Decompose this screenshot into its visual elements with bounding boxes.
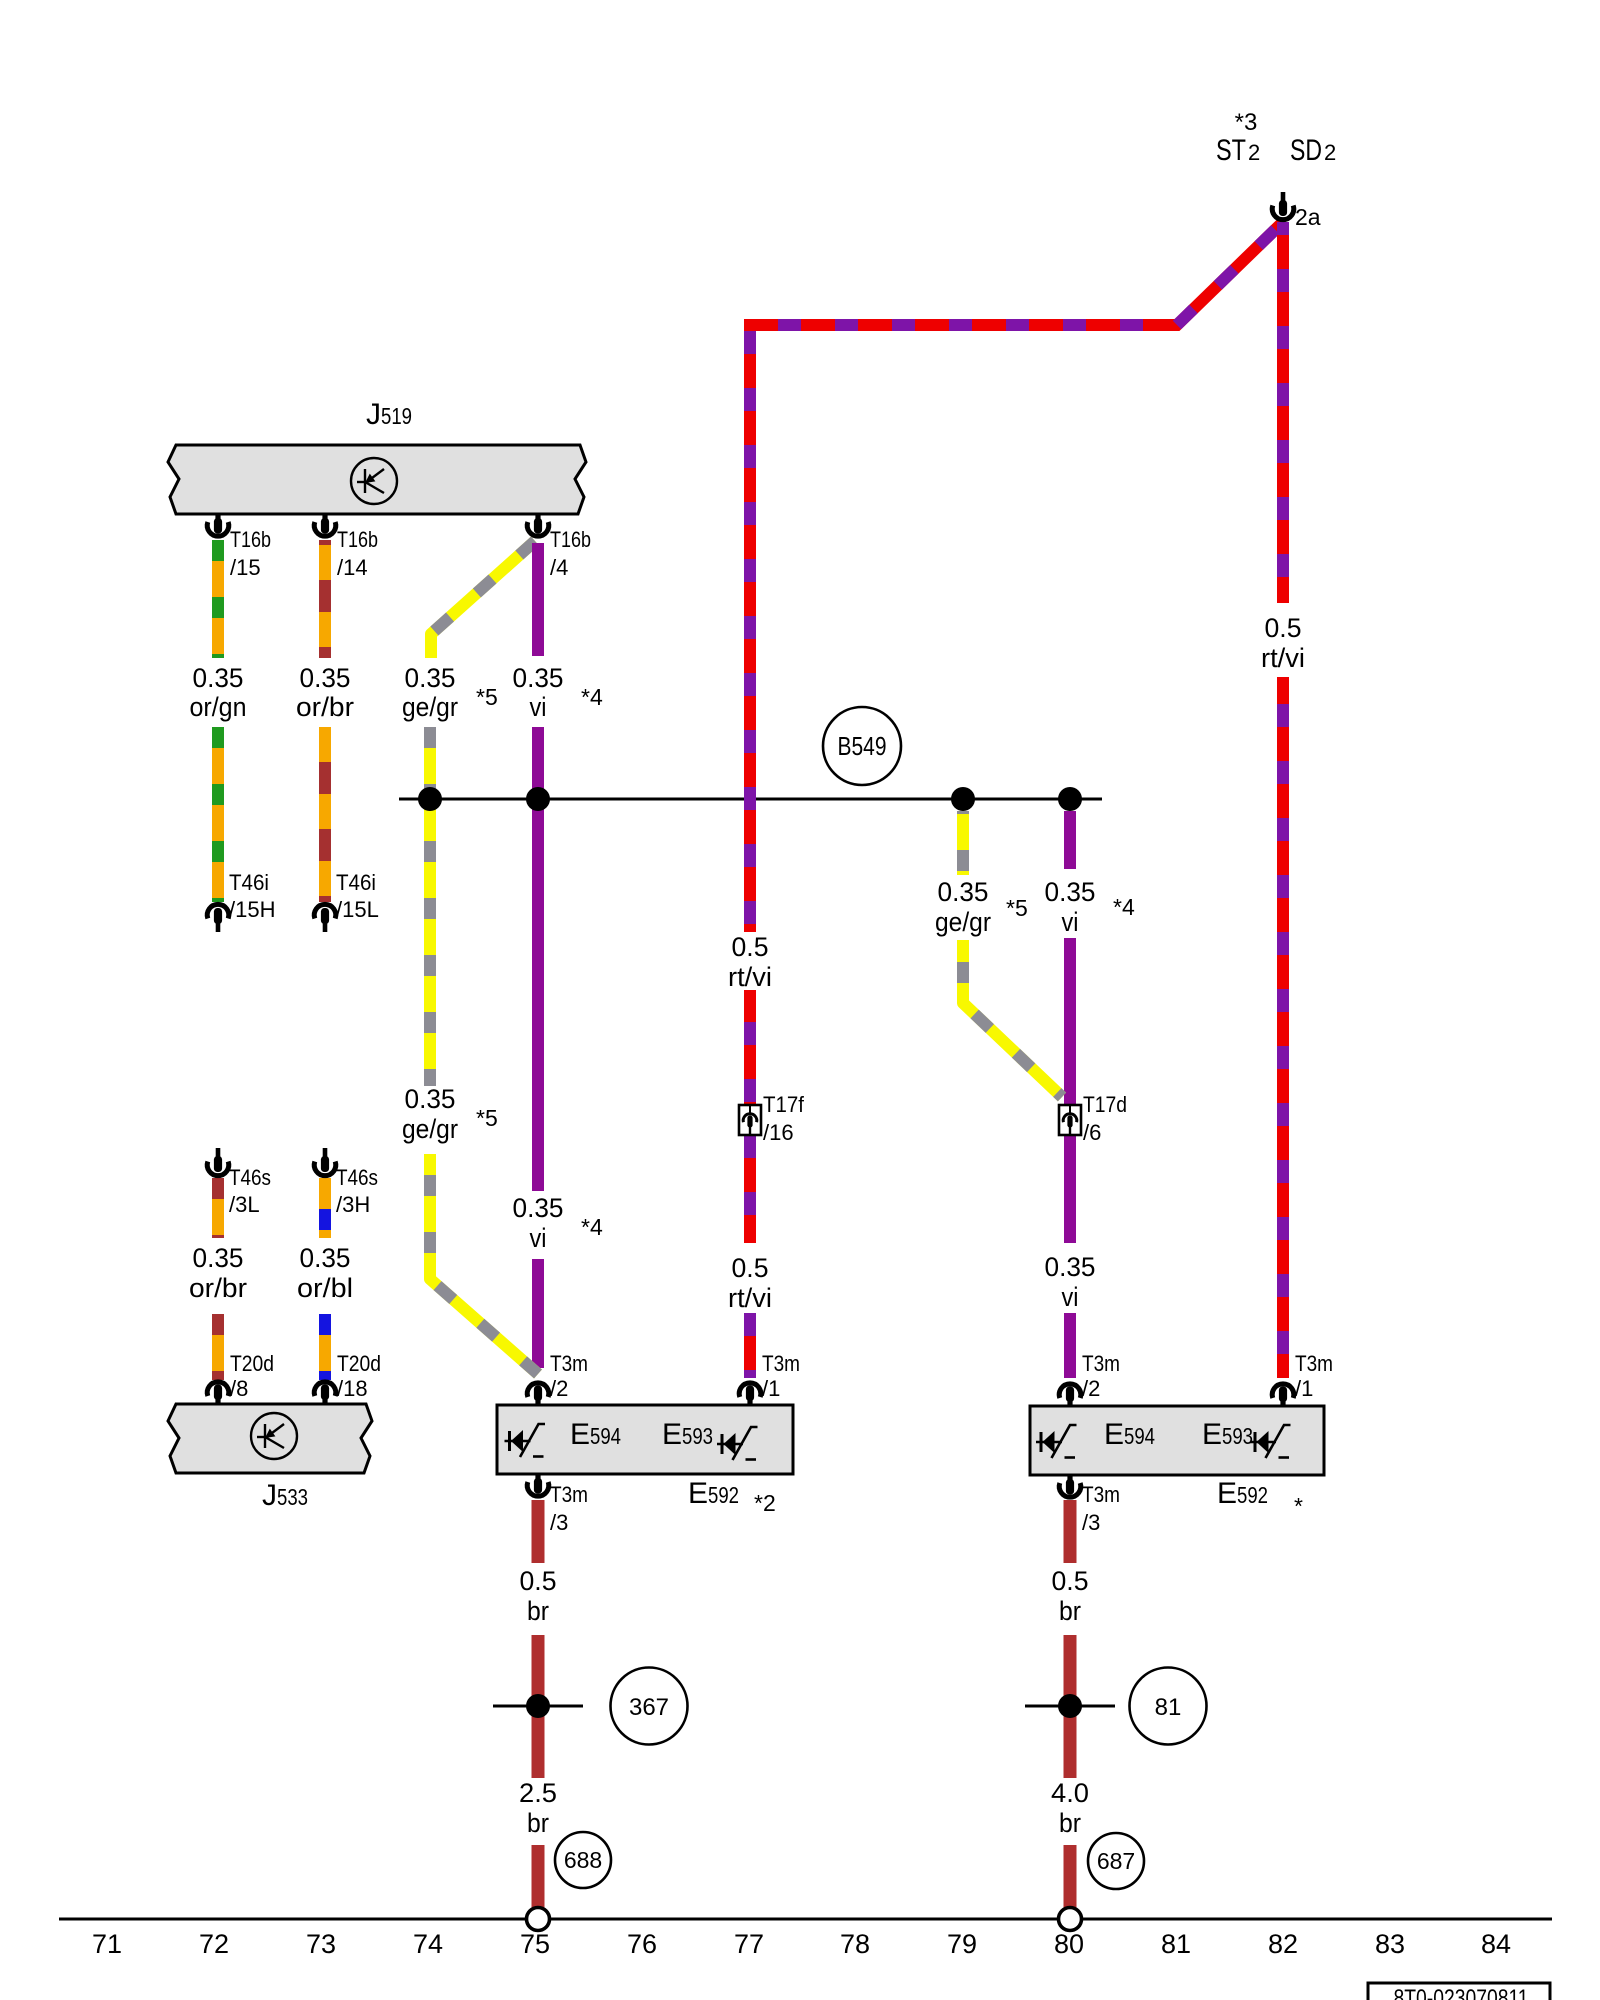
svg-text:T17d: T17d: [1083, 1092, 1127, 1117]
svg-text:/15: /15: [230, 555, 261, 580]
svg-text:ge/gr: ge/gr: [402, 692, 458, 722]
svg-text:vi: vi: [530, 692, 547, 722]
svg-text:/8: /8: [230, 1376, 248, 1401]
svg-text:E593: E593: [1202, 1418, 1253, 1451]
svg-text:*4: *4: [581, 684, 603, 710]
svg-text:T3m: T3m: [1082, 1482, 1120, 1507]
svg-text:*5: *5: [476, 1105, 498, 1131]
svg-text:T46i: T46i: [336, 870, 376, 895]
svg-text:/3H: /3H: [336, 1192, 370, 1217]
svg-text:0.5: 0.5: [520, 1566, 557, 1596]
svg-text:78: 78: [840, 1929, 870, 1959]
svg-text:79: 79: [947, 1929, 977, 1959]
svg-text:74: 74: [413, 1929, 443, 1959]
svg-text:/14: /14: [337, 555, 368, 580]
svg-text:/3: /3: [1082, 1510, 1100, 1535]
svg-text:/1: /1: [1295, 1376, 1313, 1401]
svg-text:br: br: [527, 1596, 549, 1626]
svg-text:0.35: 0.35: [513, 663, 564, 693]
svg-text:*4: *4: [581, 1214, 603, 1240]
svg-text:or/br: or/br: [296, 692, 354, 722]
svg-text:ge/gr: ge/gr: [935, 907, 991, 937]
svg-text:0.35: 0.35: [193, 1243, 244, 1273]
svg-text:T16b: T16b: [550, 527, 591, 552]
svg-text:0.35: 0.35: [300, 1243, 351, 1273]
svg-text:/2: /2: [1082, 1376, 1100, 1401]
svg-text:rt/vi: rt/vi: [728, 1283, 772, 1313]
svg-text:br: br: [1059, 1596, 1081, 1626]
svg-text:/4: /4: [550, 555, 568, 580]
svg-text:2: 2: [1248, 140, 1260, 165]
svg-text:T46s: T46s: [229, 1165, 271, 1190]
svg-text:/15L: /15L: [336, 897, 379, 922]
svg-text:T17f: T17f: [763, 1092, 805, 1117]
svg-text:0.35: 0.35: [405, 663, 456, 693]
svg-text:77: 77: [734, 1929, 764, 1959]
svg-text:0.5: 0.5: [732, 1253, 769, 1283]
svg-text:*5: *5: [1006, 895, 1028, 921]
svg-text:/15H: /15H: [229, 897, 275, 922]
svg-text:0.5: 0.5: [1052, 1566, 1089, 1596]
svg-text:2.5: 2.5: [519, 1778, 557, 1808]
svg-text:E592: E592: [1217, 1477, 1268, 1510]
svg-text:/1: /1: [762, 1376, 780, 1401]
svg-text:br: br: [1059, 1808, 1081, 1838]
svg-text:E592: E592: [688, 1477, 739, 1510]
svg-text:0.35: 0.35: [1045, 1252, 1096, 1282]
svg-text:0.5: 0.5: [732, 932, 769, 962]
svg-text:/16: /16: [763, 1120, 794, 1145]
svg-text:0.35: 0.35: [193, 663, 244, 693]
svg-text:0.35: 0.35: [513, 1193, 564, 1223]
svg-text:/18: /18: [337, 1376, 368, 1401]
svg-text:T46i: T46i: [229, 870, 269, 895]
svg-text:*: *: [1294, 1493, 1303, 1519]
svg-text:75: 75: [520, 1929, 550, 1959]
svg-text:76: 76: [627, 1929, 657, 1959]
svg-text:T20d: T20d: [230, 1351, 274, 1376]
svg-text:br: br: [527, 1808, 549, 1838]
svg-text:E593: E593: [662, 1418, 713, 1451]
svg-text:8T0-023070811: 8T0-023070811: [1394, 1985, 1529, 2000]
svg-text:vi: vi: [1062, 907, 1079, 937]
svg-text:rt/vi: rt/vi: [728, 962, 772, 992]
svg-text:ST: ST: [1216, 134, 1246, 167]
svg-text:/3L: /3L: [229, 1192, 260, 1217]
svg-text:0.35: 0.35: [300, 663, 351, 693]
svg-text:T3m: T3m: [1082, 1351, 1120, 1376]
svg-text:vi: vi: [530, 1223, 547, 1253]
svg-text:84: 84: [1481, 1929, 1511, 1959]
svg-text:688: 688: [564, 1847, 602, 1873]
svg-text:T3m: T3m: [550, 1351, 588, 1376]
svg-text:*3: *3: [1235, 109, 1258, 136]
svg-text:*4: *4: [1113, 894, 1135, 920]
svg-text:J519: J519: [366, 398, 412, 431]
svg-text:/3: /3: [550, 1510, 568, 1535]
svg-text:83: 83: [1375, 1929, 1405, 1959]
svg-text:4.0: 4.0: [1051, 1778, 1089, 1808]
svg-text:0.35: 0.35: [1045, 877, 1096, 907]
svg-text:vi: vi: [1062, 1282, 1079, 1312]
svg-text:T3m: T3m: [550, 1482, 588, 1507]
svg-text:T16b: T16b: [337, 527, 378, 552]
svg-text:J533: J533: [262, 1479, 308, 1512]
svg-text:80: 80: [1054, 1929, 1084, 1959]
svg-text:367: 367: [629, 1694, 669, 1721]
svg-text:0.35: 0.35: [938, 877, 989, 907]
svg-text:81: 81: [1161, 1929, 1191, 1959]
svg-text:or/gn: or/gn: [190, 692, 247, 722]
svg-text:*5: *5: [476, 684, 498, 710]
svg-text:*2: *2: [754, 1490, 776, 1516]
svg-text:SD: SD: [1290, 134, 1322, 167]
svg-text:2: 2: [1324, 140, 1336, 165]
svg-text:B549: B549: [838, 731, 887, 761]
svg-text:or/bl: or/bl: [297, 1273, 353, 1303]
svg-text:82: 82: [1268, 1929, 1298, 1959]
svg-text:T3m: T3m: [762, 1351, 800, 1376]
svg-text:72: 72: [199, 1929, 229, 1959]
svg-text:81: 81: [1155, 1694, 1182, 1721]
svg-text:T46s: T46s: [336, 1165, 378, 1190]
svg-text:T3m: T3m: [1295, 1351, 1333, 1376]
svg-text:rt/vi: rt/vi: [1261, 643, 1305, 673]
svg-text:T16b: T16b: [230, 527, 271, 552]
svg-text:0.35: 0.35: [405, 1084, 456, 1114]
svg-text:/6: /6: [1083, 1120, 1101, 1145]
svg-text:E594: E594: [1104, 1418, 1155, 1451]
svg-text:/2: /2: [550, 1376, 568, 1401]
svg-text:T20d: T20d: [337, 1351, 381, 1376]
svg-text:E594: E594: [570, 1418, 621, 1451]
svg-text:73: 73: [306, 1929, 336, 1959]
svg-text:0.5: 0.5: [1265, 613, 1302, 643]
svg-text:687: 687: [1097, 1848, 1135, 1874]
svg-text:2a: 2a: [1295, 204, 1321, 230]
svg-text:ge/gr: ge/gr: [402, 1114, 458, 1144]
svg-text:71: 71: [92, 1929, 122, 1959]
svg-text:or/br: or/br: [189, 1273, 247, 1303]
